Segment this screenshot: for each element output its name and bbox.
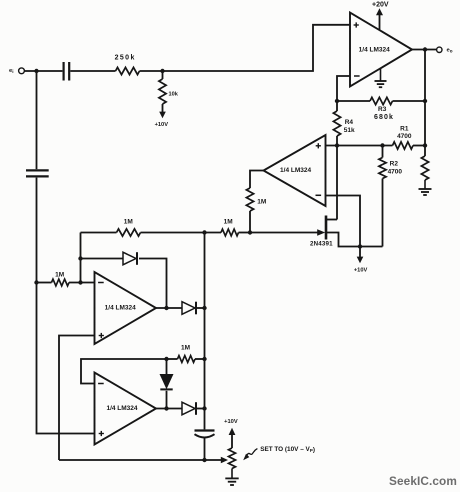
svg-text:250k: 250k [115, 55, 136, 62]
junction [358, 244, 362, 248]
wire [156, 408, 182, 410]
svg-text:1M: 1M [55, 271, 64, 278]
resistor 1M [178, 345, 196, 363]
wire [195, 358, 205, 360]
resistor R2 4700 [379, 146, 403, 247]
supply +20V [372, 1, 389, 30]
resistor 1M [246, 188, 266, 233]
diode D4 [182, 402, 196, 415]
junction [164, 357, 168, 361]
svg-text:ei: ei [9, 68, 14, 74]
diode D1 [123, 252, 137, 265]
svg-text:1/4 LM324: 1/4 LM324 [106, 405, 137, 412]
resistor 250k [115, 55, 140, 75]
supply +10V [354, 247, 368, 274]
capacitor (input coupling) [64, 62, 70, 81]
svg-text:1/4 LM324: 1/4 LM324 [105, 304, 136, 311]
op-amp U2 1/4 LM324 [264, 135, 326, 206]
adjustment arrow [243, 449, 257, 461]
svg-text:SET TO (10V – VP): SET TO (10V – VP) [260, 446, 315, 453]
junction [78, 256, 82, 260]
svg-text:1/4 LM324: 1/4 LM324 [280, 167, 311, 174]
resistor 10k [159, 71, 179, 104]
wire [156, 307, 182, 309]
output terminal e_o [437, 47, 453, 54]
resistor R3 680k [337, 97, 425, 121]
svg-text:R4: R4 [345, 119, 354, 126]
svg-text:1M: 1M [181, 345, 190, 352]
svg-text:eo: eo [447, 48, 453, 54]
wire [326, 196, 361, 247]
wire [141, 232, 222, 234]
junction [423, 143, 427, 147]
wire [37, 178, 95, 434]
op-amp U1 1/4 LM324 [350, 13, 412, 87]
junction [423, 47, 427, 51]
wire [139, 259, 167, 309]
resistor 1M [221, 218, 239, 236]
ground [225, 469, 238, 486]
svg-text:+10V: +10V [224, 419, 238, 425]
junction [202, 458, 206, 462]
wire [336, 146, 338, 220]
resistor 1M [117, 219, 141, 237]
resistor 1M [37, 271, 95, 286]
junction [380, 143, 384, 147]
wire [167, 358, 178, 360]
wire [204, 438, 206, 460]
resistor R4 51k [333, 101, 355, 146]
svg-text:10k: 10k [169, 91, 179, 97]
svg-text:680k: 680k [374, 114, 394, 121]
junction [34, 280, 38, 284]
supply +10V [155, 104, 169, 128]
wire [205, 457, 229, 464]
ground [375, 69, 387, 88]
wire [424, 50, 426, 157]
junction [248, 230, 252, 234]
wire [70, 70, 115, 72]
junction [202, 230, 206, 234]
svg-text:R2: R2 [390, 161, 399, 168]
wire [197, 408, 205, 410]
wire [81, 258, 124, 260]
supply +10V [224, 419, 238, 448]
wire [81, 232, 117, 234]
wire [337, 76, 350, 101]
wire [326, 145, 393, 147]
wire [59, 459, 205, 461]
svg-text:R3: R3 [378, 106, 387, 113]
watermark SeekIC.com [389, 474, 457, 488]
wire [239, 232, 251, 234]
junction [335, 99, 339, 103]
svg-text:1/4 LM324: 1/4 LM324 [359, 47, 390, 54]
wire [36, 71, 38, 169]
diode D3 [160, 359, 172, 409]
svg-text:R1: R1 [400, 126, 409, 133]
svg-text:+10V: +10V [354, 268, 368, 274]
wire [140, 25, 351, 71]
svg-text:2N4391: 2N4391 [310, 241, 333, 248]
svg-text:4700: 4700 [397, 133, 412, 140]
junction [78, 280, 82, 284]
wire [250, 171, 264, 189]
svg-text:1M: 1M [224, 218, 233, 225]
wire [412, 49, 437, 51]
resistor R1 4700 [393, 126, 426, 150]
junction [34, 69, 38, 73]
junction [164, 406, 168, 410]
resistor (unlabeled, to ground) [421, 156, 428, 180]
label SET TO [260, 446, 315, 453]
capacitor (hold) [195, 431, 215, 438]
op-amp U3 1/4 LM324 [95, 272, 157, 344]
capacitor (left rail) [26, 170, 49, 176]
junction [160, 69, 164, 73]
wire [204, 233, 206, 430]
wire [24, 70, 62, 72]
junction [335, 143, 339, 147]
junction [423, 99, 427, 103]
wire [59, 336, 95, 461]
transistor Q1 2N4391 [250, 216, 383, 248]
junction [202, 357, 206, 361]
svg-text:+20V: +20V [372, 1, 389, 8]
svg-text:SeekIC.com: SeekIC.com [389, 474, 457, 488]
op-amp U4 1/4 LM324 [95, 373, 157, 445]
input terminal e_i [9, 68, 24, 74]
potentiometer [229, 448, 236, 469]
svg-text:51k: 51k [344, 127, 355, 134]
svg-text:+10V: +10V [155, 122, 169, 128]
svg-text:1M: 1M [124, 219, 133, 226]
junction [164, 306, 168, 310]
svg-text:1M: 1M [257, 199, 266, 206]
junction [202, 306, 206, 310]
ground [419, 180, 432, 195]
svg-text:4700: 4700 [388, 169, 403, 176]
junction [202, 406, 206, 410]
wire [81, 359, 167, 384]
wire [80, 233, 82, 283]
diode D2 [182, 302, 196, 315]
wire [197, 307, 205, 309]
